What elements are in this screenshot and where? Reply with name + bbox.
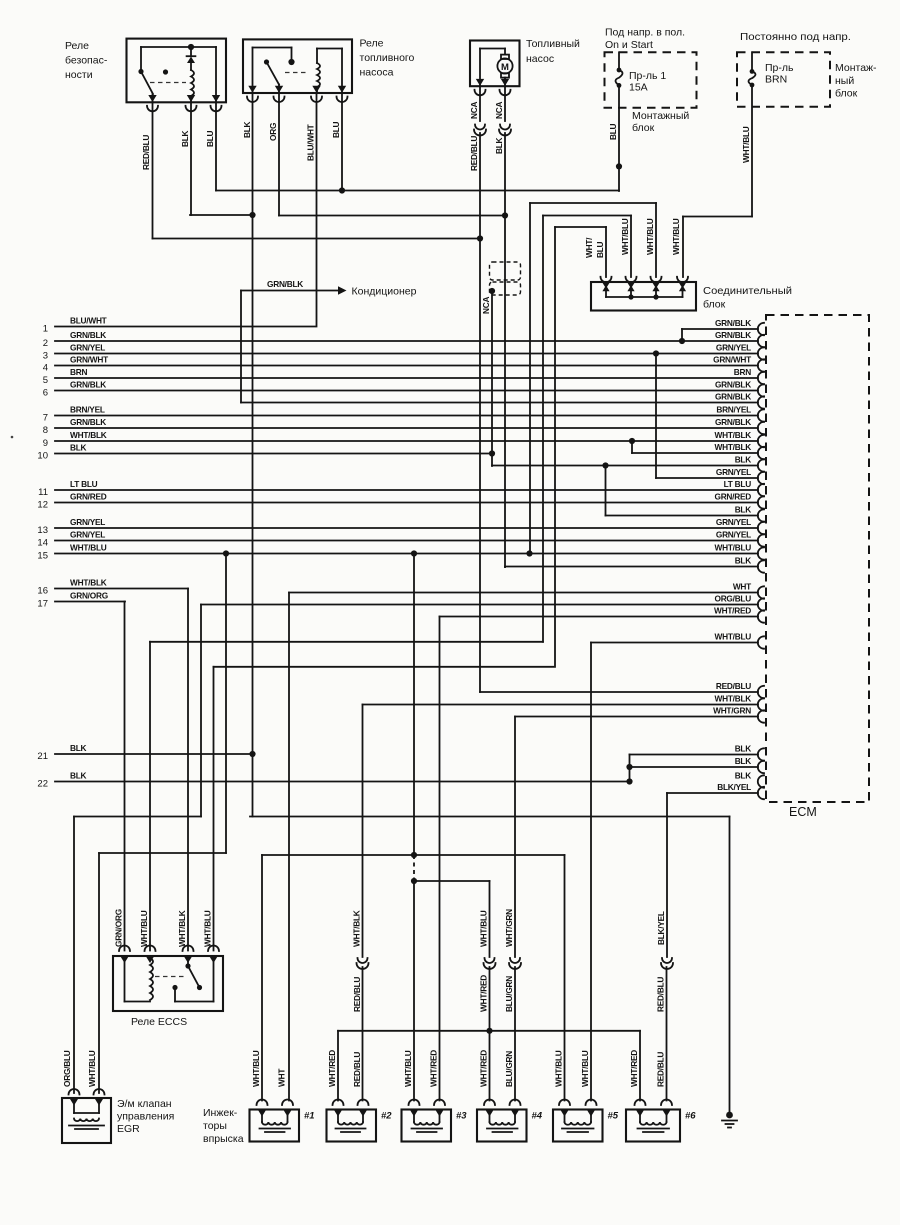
svg-text:RED/BLU: RED/BLU [141,135,151,170]
svg-text:BLU/GRN: BLU/GRN [504,976,514,1012]
svg-text:16: 16 [37,586,48,597]
svg-text:WHT/RED: WHT/RED [479,1050,489,1087]
svg-text:GRN/YEL: GRN/YEL [70,343,105,353]
svg-text:BLK/YEL: BLK/YEL [717,782,751,792]
svg-text:WHT: WHT [277,1069,287,1087]
svg-text:насос: насос [526,53,554,65]
svg-text:Э/м клапан: Э/м клапан [117,1098,172,1110]
svg-text:GRN/RED: GRN/RED [70,492,107,502]
svg-text:15А: 15А [629,82,648,94]
svg-text:#6: #6 [685,1111,696,1122]
svg-text:WHT/BLU: WHT/BLU [403,1050,413,1087]
svg-text:WHT/: WHT/ [584,237,594,258]
svg-text:NCA: NCA [481,297,491,314]
svg-text:GRN/YEL: GRN/YEL [716,467,751,477]
svg-text:EGR: EGR [117,1123,140,1135]
svg-text:WHT/BLU: WHT/BLU [479,910,489,947]
svg-text:Постоянно под напр.: Постоянно под напр. [740,31,851,43]
svg-text:блок: блок [632,122,655,134]
svg-text:BLU: BLU [595,241,605,258]
svg-text:15: 15 [37,551,48,562]
svg-text:GRN/BLK: GRN/BLK [70,417,106,427]
svg-text:ности: ности [65,69,93,81]
svg-text:14: 14 [37,538,48,549]
svg-text:торы: торы [203,1120,227,1132]
svg-text:WHT/RED: WHT/RED [629,1050,639,1087]
svg-text:WHT/RED: WHT/RED [429,1050,439,1087]
svg-text:GRN/BLK: GRN/BLK [715,417,751,427]
svg-text:Соединительный: Соединительный [703,285,792,297]
svg-text:блок: блок [835,88,858,100]
svg-text:BLK: BLK [70,443,87,453]
svg-text:WHT/BLU: WHT/BLU [715,543,752,553]
svg-text:впрыска: впрыска [203,1133,244,1145]
svg-text:5: 5 [43,375,48,386]
svg-text:GRN/RED: GRN/RED [714,492,751,502]
svg-text:BRN: BRN [765,74,787,86]
svg-text:ORG/BLU: ORG/BLU [714,594,751,604]
svg-text:BRN: BRN [734,367,751,377]
svg-text:#1: #1 [304,1111,315,1122]
svg-text:Кондиционер: Кондиционер [352,286,417,298]
svg-text:2: 2 [43,338,48,349]
svg-text:Монтажный: Монтажный [632,110,689,122]
svg-text:Монтаж-: Монтаж- [835,62,877,74]
svg-text:BLU/WHT: BLU/WHT [306,124,316,161]
svg-text:BLU/WHT: BLU/WHT [70,316,107,326]
svg-text:4: 4 [43,363,48,374]
svg-text:BRN/YEL: BRN/YEL [70,405,105,415]
svg-text:WHT/RED: WHT/RED [714,606,751,616]
svg-text:GRN/BLK: GRN/BLK [70,380,106,390]
svg-text:BLU: BLU [331,121,341,138]
svg-text:BRN: BRN [70,367,87,377]
svg-text:ECM: ECM [789,805,817,819]
svg-text:On и Start: On и Start [605,39,653,51]
svg-text:управления: управления [117,1111,174,1123]
svg-text:LT BLU: LT BLU [70,479,98,489]
svg-text:#2: #2 [381,1111,392,1122]
svg-text:ORG: ORG [268,123,278,141]
svg-text:BRN/YEL: BRN/YEL [716,405,751,415]
svg-text:WHT/BLU: WHT/BLU [139,910,149,947]
svg-text:13: 13 [37,525,48,536]
svg-text:#5: #5 [608,1111,619,1122]
svg-text:WHT/BLK: WHT/BLK [352,910,362,947]
svg-text:6: 6 [43,388,48,399]
svg-text:BLK: BLK [180,130,190,147]
svg-text:1: 1 [43,324,48,335]
svg-text:BLU/GRN: BLU/GRN [504,1051,514,1087]
svg-text:GRN/BLK: GRN/BLK [715,380,751,390]
svg-text:Реле ECCS: Реле ECCS [131,1016,187,1028]
svg-text:ный: ный [835,75,854,87]
svg-text:WHT/BLK: WHT/BLK [70,430,107,440]
svg-text:WHT/BLU: WHT/BLU [554,1050,564,1087]
svg-text:BLK: BLK [735,744,752,754]
svg-text:NCA: NCA [494,102,504,119]
svg-text:Реле: Реле [65,40,89,52]
svg-text:блок: блок [703,299,726,311]
svg-text:RED/BLU: RED/BLU [352,977,362,1012]
svg-text:ORG/BLU: ORG/BLU [62,1050,72,1087]
svg-text:12: 12 [37,500,48,511]
svg-text:GRN/YEL: GRN/YEL [70,530,105,540]
svg-text:RED/BLU: RED/BLU [716,681,751,691]
svg-text:GRN/ORG: GRN/ORG [114,909,124,947]
svg-text:GRN/YEL: GRN/YEL [70,517,105,527]
svg-text:безопас-: безопас- [65,55,108,67]
svg-text:WHT/BLU: WHT/BLU [251,1050,261,1087]
svg-text:GRN/ORG: GRN/ORG [70,591,108,601]
svg-text:BLK: BLK [735,771,752,781]
svg-text:BLU: BLU [608,123,618,140]
svg-text:BLU: BLU [205,130,215,147]
svg-text:насоса: насоса [360,67,394,79]
svg-text:топливного: топливного [360,52,415,64]
svg-text:NCA: NCA [469,102,479,119]
svg-text:WHT/BLU: WHT/BLU [203,910,213,947]
svg-text:WHT/BLU: WHT/BLU [87,1050,97,1087]
svg-text:WHT/BLU: WHT/BLU [70,543,107,553]
svg-text:RED/BLU: RED/BLU [656,1052,666,1087]
svg-text:BLK: BLK [242,121,252,138]
svg-text:WHT/BLU: WHT/BLU [671,218,681,255]
svg-text:RED/BLU: RED/BLU [656,977,666,1012]
svg-text:BLK: BLK [494,137,504,154]
svg-text:Инжек-: Инжек- [203,1107,238,1119]
svg-text:#4: #4 [532,1111,543,1122]
svg-text:Пр-ль: Пр-ль [765,62,794,74]
svg-text:GRN/YEL: GRN/YEL [716,517,751,527]
svg-text:9: 9 [43,438,48,449]
svg-text:11: 11 [38,487,48,498]
svg-text:WHT/BLU: WHT/BLU [715,632,752,642]
svg-text:WHT/BLK: WHT/BLK [715,430,752,440]
svg-text:GRN/WHT: GRN/WHT [70,355,108,365]
svg-text:GRN/BLK: GRN/BLK [715,318,751,328]
svg-text:BLK: BLK [735,556,752,566]
svg-text:GRN/YEL: GRN/YEL [716,530,751,540]
svg-text:Реле: Реле [360,38,384,50]
svg-text:3: 3 [43,351,48,362]
svg-text:BLK: BLK [735,505,752,515]
svg-text:LT BLU: LT BLU [724,479,752,489]
svg-text:WHT: WHT [733,582,751,592]
svg-text:WHT/RED: WHT/RED [479,975,489,1012]
svg-text:WHT/BLK: WHT/BLK [177,910,187,947]
svg-text:WHT/GRN: WHT/GRN [504,909,514,947]
svg-text:WHT/BLU: WHT/BLU [580,1050,590,1087]
svg-text:GRN/BLK: GRN/BLK [715,330,751,340]
svg-text:8: 8 [43,425,48,436]
svg-text:BLK/YEL: BLK/YEL [656,911,666,945]
svg-text:WHT/RED: WHT/RED [327,1050,337,1087]
svg-text:BLK: BLK [70,771,87,781]
svg-text:WHT/GRN: WHT/GRN [713,706,751,716]
svg-text:Пр-ль 1: Пр-ль 1 [629,70,666,82]
svg-text:10: 10 [37,451,48,462]
svg-text:WHT/BLU: WHT/BLU [645,218,655,255]
svg-text:WHT/BLK: WHT/BLK [715,442,752,452]
svg-text:RED/BLU: RED/BLU [352,1052,362,1087]
svg-text:WHT/BLK: WHT/BLK [715,694,752,704]
svg-text:Топливный: Топливный [526,38,580,50]
svg-text:M: M [501,62,509,73]
svg-text:7: 7 [43,413,48,424]
svg-text:GRN/BLK: GRN/BLK [267,279,303,289]
svg-text:17: 17 [37,599,48,610]
svg-text:BLK: BLK [735,455,752,465]
svg-text:BLK: BLK [70,743,87,753]
svg-text:GRN/WHT: GRN/WHT [713,355,751,365]
svg-text:WHT/BLK: WHT/BLK [70,578,107,588]
svg-text:22: 22 [37,779,48,790]
svg-text:#3: #3 [456,1111,467,1122]
svg-text:GRN/BLK: GRN/BLK [715,392,751,402]
svg-text:21: 21 [37,751,48,762]
svg-text:GRN/YEL: GRN/YEL [716,343,751,353]
svg-text:BLK: BLK [735,756,752,766]
svg-text:RED/BLU: RED/BLU [469,136,479,171]
svg-text:WHT/BLU: WHT/BLU [741,126,751,163]
svg-text:Под напр. в пол.: Под напр. в пол. [605,27,685,39]
svg-text:GRN/BLK: GRN/BLK [70,330,106,340]
svg-text:WHT/BLU: WHT/BLU [620,218,630,255]
